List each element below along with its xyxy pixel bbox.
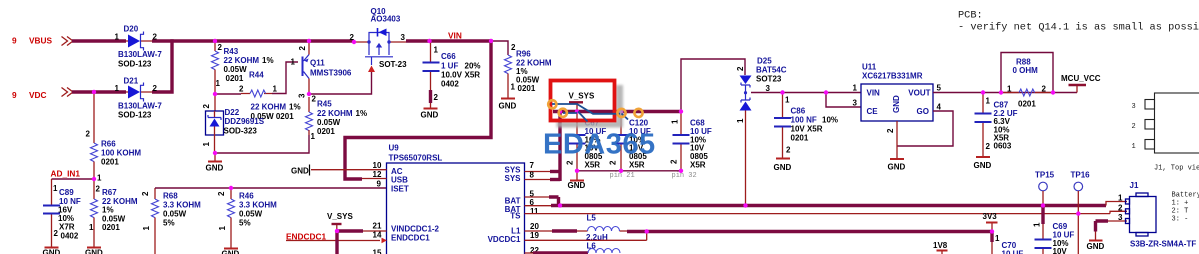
wire R96 tap bbox=[491, 41, 508, 55]
svg-text:1: 1 bbox=[311, 132, 316, 141]
svg-text:J1, Top vie: J1, Top vie bbox=[1154, 165, 1199, 173]
port VBUS bbox=[12, 36, 73, 46]
resistor R67 bbox=[89, 179, 138, 247]
svg-text:GND: GND bbox=[568, 181, 586, 190]
svg-text:1: 1 bbox=[995, 234, 1000, 243]
svg-text:0201: 0201 bbox=[101, 158, 119, 167]
svg-text:USB: USB bbox=[391, 176, 408, 185]
svg-text:22 KOHM: 22 KOHM bbox=[317, 109, 353, 118]
svg-text:U11: U11 bbox=[862, 63, 877, 72]
wire V_SYS rail bbox=[553, 110, 681, 113]
resistor R96 bbox=[505, 43, 552, 98]
svg-text:SOD-123: SOD-123 bbox=[118, 60, 152, 69]
svg-text:1: 1 bbox=[216, 79, 221, 88]
svg-text:0.05W: 0.05W bbox=[163, 210, 187, 219]
svg-text:2: 2 bbox=[312, 95, 317, 104]
svg-text:DDZ9691S: DDZ9691S bbox=[225, 117, 265, 126]
svg-text:VBUS: VBUS bbox=[29, 36, 53, 46]
svg-text:C66: C66 bbox=[441, 52, 456, 61]
power symbol MCU_VCC bbox=[1061, 74, 1101, 93]
svg-text:2: 2 bbox=[566, 160, 575, 165]
svg-text:D22: D22 bbox=[225, 108, 240, 117]
ground U11 bbox=[888, 159, 906, 172]
wire J1 pin3 bbox=[1108, 220, 1127, 222]
capacitor C86 bbox=[774, 93, 838, 159]
svg-text:12: 12 bbox=[373, 170, 382, 179]
pin 8 U9 bbox=[525, 171, 561, 180]
svg-text:TS: TS bbox=[510, 212, 521, 221]
svg-text:3: 3 bbox=[298, 93, 307, 98]
svg-text:2: 2 bbox=[434, 93, 439, 102]
junction TP15/BAT bbox=[1041, 203, 1045, 207]
svg-text:2: 2 bbox=[786, 146, 791, 155]
junction SYS riser top bbox=[558, 109, 562, 113]
junction AD_IN1 node bbox=[92, 177, 96, 181]
op-amp U9 TPS65070RSL bbox=[387, 144, 525, 254]
svg-text:2: 2 bbox=[54, 229, 59, 238]
svg-text:1: 1 bbox=[986, 97, 991, 106]
wire D21 to VBUS merge bbox=[152, 39, 172, 93]
svg-text:V_SYS: V_SYS bbox=[327, 212, 353, 221]
svg-text:5%: 5% bbox=[163, 219, 175, 228]
svg-text:D21: D21 bbox=[124, 77, 139, 86]
svg-text:- verify net Q14.1 is as small: - verify net Q14.1 is as small as possib bbox=[958, 22, 1199, 34]
arrow Q10 gate bbox=[368, 66, 375, 73]
svg-text:ENDCDC1: ENDCDC1 bbox=[391, 234, 430, 243]
svg-text:U9: U9 bbox=[389, 144, 400, 153]
svg-text:R44: R44 bbox=[249, 71, 264, 80]
junction D25 to BAT bbox=[743, 203, 747, 207]
svg-text:2: 2 bbox=[1132, 123, 1136, 131]
resistor R46 bbox=[217, 188, 277, 248]
svg-text:1%: 1% bbox=[262, 56, 274, 65]
resistor R88 bbox=[1001, 58, 1053, 109]
svg-text:CE: CE bbox=[867, 107, 879, 116]
svg-text:1: 1 bbox=[218, 226, 227, 231]
junction VDC/R66 bbox=[92, 90, 96, 94]
svg-text:100 KOHM: 100 KOHM bbox=[101, 149, 141, 158]
svg-text:R96: R96 bbox=[516, 50, 531, 59]
capacitor C70 bbox=[992, 232, 1023, 254]
ground J1 bbox=[1087, 232, 1105, 252]
ground C87 bbox=[974, 157, 992, 170]
ground C67 bbox=[568, 171, 586, 190]
svg-text:2: 2 bbox=[153, 84, 158, 93]
wire CE jog bbox=[826, 93, 861, 108]
svg-text:AO3403: AO3403 bbox=[371, 15, 401, 24]
wire VIN rail bbox=[406, 39, 491, 42]
power symbol 3V3 bbox=[983, 212, 998, 232]
svg-text:AD_IN1: AD_IN1 bbox=[51, 169, 81, 179]
svg-text:R46: R46 bbox=[239, 192, 254, 201]
svg-text:22 KOHM: 22 KOHM bbox=[251, 103, 287, 112]
svg-text:2: 2 bbox=[609, 160, 618, 165]
svg-text:pin 21: pin 21 bbox=[610, 172, 635, 180]
svg-text:1: 1 bbox=[434, 46, 439, 55]
svg-text:20%: 20% bbox=[465, 62, 481, 71]
resistor R45 bbox=[306, 95, 368, 142]
svg-text:GO: GO bbox=[917, 107, 929, 116]
annotation shadow bbox=[557, 85, 624, 128]
test point TP15 bbox=[1035, 171, 1055, 206]
svg-text:GND: GND bbox=[85, 249, 103, 254]
resistor R43 bbox=[212, 41, 274, 94]
junction D22/R45 GND node bbox=[213, 151, 217, 155]
svg-text:R66: R66 bbox=[101, 140, 116, 149]
annotation orange circle 1 bbox=[548, 100, 556, 108]
wire BAT to J1 pin1 bbox=[1106, 202, 1127, 206]
junction R88 right bbox=[1051, 90, 1055, 94]
capacitor C68 bbox=[670, 112, 712, 171]
capacitor C89 bbox=[43, 179, 81, 247]
svg-text:BAT54C: BAT54C bbox=[756, 66, 787, 75]
ground R67 bbox=[85, 248, 103, 254]
svg-text:0.05W: 0.05W bbox=[239, 210, 263, 219]
svg-text:C86: C86 bbox=[791, 107, 806, 116]
wire V_SYS to D25 bbox=[681, 59, 745, 112]
svg-text:0 OHM: 0 OHM bbox=[1013, 66, 1039, 75]
note battery pinout bbox=[1172, 192, 1199, 224]
svg-text:1V8: 1V8 bbox=[933, 241, 948, 250]
junction L5 out bbox=[645, 229, 649, 233]
svg-text:MCU_VCC: MCU_VCC bbox=[1061, 74, 1101, 83]
resistor R66 bbox=[86, 92, 142, 183]
pin 22 U9 bbox=[525, 246, 540, 254]
svg-text:9: 9 bbox=[377, 180, 382, 189]
svg-text:15: 15 bbox=[373, 249, 382, 254]
svg-text:X5R: X5R bbox=[585, 161, 601, 170]
connector J1 bbox=[1118, 181, 1196, 249]
junction C86 tap bbox=[780, 90, 784, 94]
svg-text:10 UF: 10 UF bbox=[1002, 250, 1024, 254]
svg-text:1: 1 bbox=[273, 85, 278, 94]
svg-text:0402: 0402 bbox=[441, 80, 459, 89]
svg-text:1: 1 bbox=[1118, 194, 1123, 203]
zener D22 bbox=[202, 94, 265, 153]
junction 3V3/C70 bbox=[990, 229, 994, 233]
svg-text:1: 1 bbox=[115, 84, 120, 93]
svg-text:10: 10 bbox=[373, 161, 382, 170]
pin 6 U9 bbox=[525, 198, 552, 207]
svg-text:1: 1 bbox=[785, 96, 790, 105]
svg-text:GND: GND bbox=[206, 164, 224, 173]
svg-text:1: +: 1: + bbox=[1172, 200, 1189, 208]
junction C66 tap bbox=[427, 39, 431, 43]
svg-text:Q11: Q11 bbox=[310, 59, 325, 68]
svg-text:SOD-323: SOD-323 bbox=[224, 127, 258, 136]
annotation orange circle 4 bbox=[634, 109, 642, 117]
svg-text:EDA365: EDA365 bbox=[543, 129, 656, 161]
svg-text:2: 2 bbox=[217, 191, 226, 196]
transistor Q10 bbox=[350, 7, 408, 69]
svg-text:2: 2 bbox=[218, 43, 223, 52]
svg-text:3V3: 3V3 bbox=[983, 212, 998, 221]
svg-text:2: 2 bbox=[86, 130, 91, 139]
svg-text:X7R: X7R bbox=[59, 223, 75, 232]
svg-text:1: 1 bbox=[53, 184, 58, 193]
svg-text:10%: 10% bbox=[822, 116, 838, 125]
arrow ENDCDC1 bbox=[382, 238, 387, 244]
svg-text:1%: 1% bbox=[102, 206, 114, 215]
svg-text:0.05W: 0.05W bbox=[224, 65, 248, 74]
wire BAT rail bbox=[551, 204, 1106, 207]
pin 5 U9 bbox=[525, 190, 559, 206]
svg-text:B130LAW-7: B130LAW-7 bbox=[118, 50, 162, 59]
svg-text:0201: 0201 bbox=[1018, 100, 1036, 109]
junction C87 tap bbox=[981, 90, 985, 94]
svg-text:XC6217B331MR: XC6217B331MR bbox=[862, 72, 923, 81]
svg-text:SYS: SYS bbox=[504, 174, 521, 183]
svg-text:S3B-ZR-SM4A-TF: S3B-ZR-SM4A-TF bbox=[1130, 240, 1196, 249]
junction C120 top bbox=[619, 109, 623, 113]
pin 21 U9 bbox=[362, 222, 387, 232]
svg-text:D25: D25 bbox=[757, 57, 772, 66]
svg-text:1%: 1% bbox=[289, 103, 301, 112]
wire TP15 to C69 bbox=[1041, 206, 1044, 225]
svg-text:pin 32: pin 32 bbox=[672, 172, 697, 180]
svg-text:TP16: TP16 bbox=[1071, 171, 1091, 180]
wire ISET net bbox=[155, 187, 387, 189]
svg-text:3: -: 3: - bbox=[1172, 216, 1189, 224]
svg-text:VOUT: VOUT bbox=[908, 89, 930, 98]
svg-text:GND: GND bbox=[888, 163, 906, 172]
svg-text:2: 2 bbox=[986, 142, 991, 151]
pin 14 U9 bbox=[373, 231, 382, 240]
wire R44 to Q11 base bbox=[272, 62, 298, 94]
wire R43 to R44 bbox=[215, 93, 241, 95]
svg-text:Battery: Battery bbox=[1172, 192, 1199, 200]
junction VIN corner / R96 tap bbox=[489, 39, 493, 43]
wire AD_IN1 bbox=[52, 178, 95, 180]
svg-text:1: 1 bbox=[671, 119, 680, 124]
svg-text:VIN: VIN bbox=[448, 31, 462, 41]
port VDC bbox=[12, 88, 73, 101]
regulator U11 XC6217B331MR bbox=[853, 63, 942, 134]
wire ENDCDC1 bbox=[286, 240, 380, 242]
junction R43 tap bbox=[213, 39, 217, 43]
wire J1 gnd thick bbox=[1096, 221, 1109, 232]
svg-text:7: 7 bbox=[530, 161, 535, 170]
capacitor C69 bbox=[1033, 222, 1075, 254]
junction C68 top bbox=[679, 109, 683, 113]
svg-text:8: 8 bbox=[530, 171, 535, 180]
power symbol V_SYS left bbox=[327, 212, 353, 231]
svg-text:VIN: VIN bbox=[867, 89, 881, 98]
note PCB bbox=[958, 10, 1199, 34]
svg-text:3: 3 bbox=[766, 84, 771, 93]
svg-text:1: 1 bbox=[115, 33, 120, 42]
junction R46/ISET bbox=[229, 186, 233, 190]
capacitor C66 bbox=[423, 41, 481, 103]
wire D25.3 to U11 bbox=[751, 92, 861, 94]
svg-text:4: 4 bbox=[937, 103, 942, 112]
svg-text:GND: GND bbox=[499, 102, 517, 111]
svg-text:1: 1 bbox=[736, 118, 745, 123]
svg-text:R45: R45 bbox=[317, 100, 332, 109]
junction V_SYS node bbox=[335, 229, 339, 233]
ground C86 bbox=[774, 159, 792, 173]
wire VOUT net bbox=[933, 92, 1077, 94]
transistor Q11 bbox=[291, 41, 352, 98]
svg-text:9: 9 bbox=[12, 36, 17, 46]
wire GND rail caps bbox=[577, 170, 681, 172]
svg-text:0201: 0201 bbox=[102, 223, 120, 232]
svg-text:1: 1 bbox=[1132, 143, 1136, 151]
inductor L6 bbox=[533, 249, 620, 254]
ground D22 bbox=[206, 153, 224, 173]
junction C120 gnd bbox=[619, 169, 623, 173]
svg-text:C89: C89 bbox=[59, 188, 74, 197]
svg-text:14: 14 bbox=[373, 231, 382, 240]
capacitor C120 bbox=[609, 112, 651, 171]
svg-text:5: 5 bbox=[937, 84, 942, 93]
junction CE tap bbox=[824, 90, 828, 94]
wire V_SYS to pin21 and down bbox=[337, 231, 363, 254]
svg-text:5%: 5% bbox=[239, 219, 251, 228]
svg-text:2: 2 bbox=[96, 185, 101, 194]
power symbol V_SYS bbox=[569, 92, 595, 112]
wire SYS riser bbox=[558, 112, 561, 182]
wire VDC rail bbox=[72, 90, 126, 93]
svg-text:3: 3 bbox=[1132, 103, 1136, 111]
wire Q11 collector to Q10 gate bbox=[309, 71, 372, 94]
svg-text:1: 1 bbox=[291, 58, 296, 67]
pin 7 U9 bbox=[525, 161, 561, 172]
svg-text:1: 1 bbox=[1033, 222, 1042, 227]
svg-text:SOT-23: SOT-23 bbox=[379, 60, 407, 69]
wire VBUS rail bbox=[72, 39, 126, 42]
resistor R44 bbox=[239, 71, 301, 122]
svg-text:0.05W: 0.05W bbox=[317, 118, 341, 127]
wire VIN down to U9 pin12 bbox=[345, 39, 491, 179]
svg-text:2: T: 2: T bbox=[1172, 208, 1189, 216]
svg-text:SOT23: SOT23 bbox=[756, 75, 782, 84]
junction Q10 pin2 bbox=[352, 40, 356, 44]
svg-text:VINDCDC1-2: VINDCDC1-2 bbox=[391, 225, 440, 234]
svg-text:R43: R43 bbox=[224, 47, 239, 56]
svg-text:TPS65070RSL: TPS65070RSL bbox=[389, 154, 443, 163]
svg-text:2: 2 bbox=[298, 46, 307, 51]
svg-text:GND: GND bbox=[974, 161, 992, 170]
ground R46 bbox=[222, 249, 240, 254]
svg-text:B130LAW-7: B130LAW-7 bbox=[118, 102, 162, 111]
svg-text:21: 21 bbox=[373, 222, 382, 231]
svg-text:L5: L5 bbox=[587, 214, 597, 223]
svg-text:SOD-123: SOD-123 bbox=[118, 111, 152, 120]
svg-text:10V X5R: 10V X5R bbox=[791, 125, 823, 134]
svg-text:2: 2 bbox=[1118, 204, 1123, 213]
svg-text:GND: GND bbox=[774, 163, 792, 172]
wire TS to J1 pin2 bbox=[1110, 211, 1127, 213]
svg-text:0201: 0201 bbox=[518, 84, 536, 93]
annotation red box V_SYS bbox=[551, 81, 615, 121]
wire D22 node to R45 bbox=[215, 135, 309, 153]
svg-text:R67: R67 bbox=[102, 188, 117, 197]
pin 11 U9 TS bbox=[525, 207, 1111, 216]
ground C66 bbox=[421, 103, 439, 120]
inductor L5 bbox=[577, 214, 628, 251]
svg-text:3.3 KOHM: 3.3 KOHM bbox=[163, 201, 201, 210]
svg-text:19: 19 bbox=[530, 231, 539, 240]
svg-text:1: 1 bbox=[202, 142, 211, 147]
svg-text:0402: 0402 bbox=[61, 232, 79, 241]
pin 12 U9 bbox=[362, 170, 387, 179]
svg-text:X5R: X5R bbox=[690, 161, 706, 170]
svg-text:R68: R68 bbox=[163, 192, 178, 201]
wire D20 cathode to Q10 bbox=[152, 39, 354, 42]
junction TP16/TS bbox=[1076, 211, 1080, 215]
svg-text:GND: GND bbox=[1087, 242, 1105, 251]
svg-text:1: 1 bbox=[97, 174, 102, 183]
svg-text:ISET: ISET bbox=[391, 185, 409, 194]
annotation orange circle 2 bbox=[559, 109, 567, 117]
resistor R68 bbox=[141, 188, 201, 254]
svg-text:1: 1 bbox=[511, 83, 516, 92]
svg-text:0603: 0603 bbox=[994, 142, 1012, 151]
ground label pin10 bbox=[291, 165, 310, 176]
svg-text:1: 1 bbox=[853, 84, 858, 93]
svg-text:2: 2 bbox=[886, 128, 895, 133]
svg-text:2: 2 bbox=[239, 85, 244, 94]
svg-text:TP15: TP15 bbox=[1035, 171, 1055, 180]
diode D25 BAT54C bbox=[736, 57, 787, 206]
svg-text:9: 9 bbox=[12, 90, 17, 100]
svg-text:1: 1 bbox=[89, 223, 94, 232]
pin 10 U9 bbox=[311, 161, 387, 170]
diode D20 bbox=[115, 25, 163, 69]
capacitor C67 bbox=[566, 112, 607, 171]
svg-text:2: 2 bbox=[141, 191, 150, 196]
svg-text:11: 11 bbox=[530, 207, 539, 216]
svg-text:GND: GND bbox=[291, 167, 309, 176]
drawing J1 top view bbox=[1132, 93, 1199, 173]
svg-text:0201: 0201 bbox=[791, 134, 809, 143]
svg-text:GND: GND bbox=[892, 95, 901, 113]
svg-text:2: 2 bbox=[670, 159, 679, 164]
diode D21 bbox=[115, 77, 163, 120]
svg-text:3.3 KOHM: 3.3 KOHM bbox=[239, 201, 277, 210]
junction R88 left bbox=[999, 90, 1003, 94]
svg-text:0201: 0201 bbox=[317, 127, 335, 136]
ground R96 bbox=[499, 99, 517, 111]
pin 20 U9 bbox=[525, 222, 578, 231]
junction C67 gnd bbox=[575, 169, 579, 173]
wire U11 pin2 gnd bbox=[896, 121, 898, 159]
annotation blue leader lines bbox=[552, 104, 628, 122]
svg-text:GND: GND bbox=[421, 111, 439, 120]
power symbol 1V8 bbox=[933, 241, 948, 254]
svg-text:22 KOHM: 22 KOHM bbox=[224, 56, 260, 65]
svg-text:1%: 1% bbox=[356, 109, 368, 118]
wire L5 out to 3V3 rail bbox=[627, 230, 993, 233]
wire U11 GO loop bbox=[897, 111, 953, 146]
svg-text:10.0V: 10.0V bbox=[441, 71, 463, 80]
svg-text:2: 2 bbox=[736, 66, 745, 71]
svg-text:3: 3 bbox=[401, 33, 406, 42]
junction R43/R44/D22 bbox=[213, 92, 217, 96]
test point TP16 bbox=[1071, 171, 1091, 254]
svg-text:2: 2 bbox=[153, 33, 158, 42]
svg-text:GND: GND bbox=[43, 249, 61, 254]
svg-text:3: 3 bbox=[1118, 213, 1123, 222]
svg-text:1 UF: 1 UF bbox=[441, 62, 458, 71]
svg-text:V_SYS: V_SYS bbox=[569, 92, 595, 101]
junction BAT pins bbox=[558, 203, 562, 207]
pin 19 U9 VDCDC1 bbox=[525, 231, 647, 240]
junction Q11 emitter bbox=[307, 39, 311, 43]
svg-text:20: 20 bbox=[530, 222, 539, 231]
wire R88 bypass loop bbox=[1001, 53, 1053, 93]
